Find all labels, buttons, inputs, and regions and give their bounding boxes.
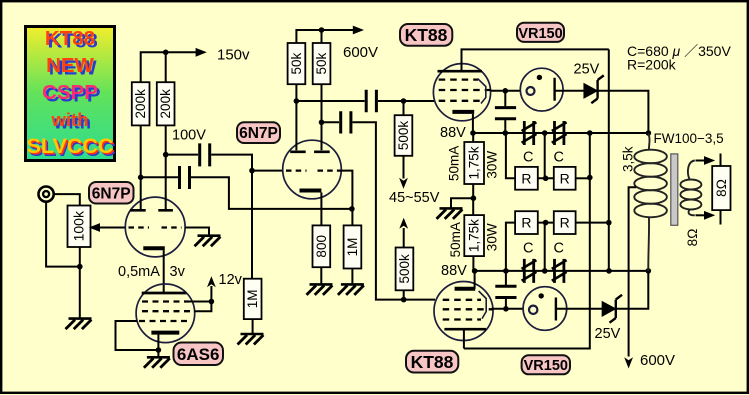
node g2/bypass junction — [503, 88, 509, 94]
wire 1,75k chain — [472, 133, 474, 215]
svg-text:R: R — [560, 215, 570, 231]
tube V2 grid rows — [443, 300, 493, 320]
node 200k R2 top junction — [163, 50, 169, 56]
resistor 500k R6 — [396, 248, 414, 291]
svg-text:C: C — [554, 150, 564, 166]
svg-text:NEW: NEW — [46, 54, 94, 77]
resistor 1M R10 — [344, 225, 362, 268]
svg-text:1,75k: 1,75k — [467, 146, 482, 179]
wire jack to 100k top — [54, 194, 80, 205]
svg-text:R: R — [521, 215, 531, 231]
svg-text:1M: 1M — [245, 290, 260, 309]
svg-text:200k: 200k — [158, 89, 173, 119]
tube 6N7P U3 envelope — [283, 140, 342, 199]
resistor R box top-right — [554, 167, 576, 190]
resistor R box top-left — [515, 167, 538, 190]
tube V3 cathode circle — [527, 87, 535, 95]
wire secondary top arrow — [696, 156, 716, 165]
ground under 1M R8 — [238, 334, 264, 345]
node U3 grid junction — [249, 168, 255, 174]
svg-text:100V: 100V — [172, 128, 206, 144]
svg-text:R: R — [560, 170, 570, 186]
label 6N7P U1 — [89, 182, 134, 204]
wire U3 cathode to 800 — [320, 193, 322, 226]
resistor 200k R1 — [132, 82, 150, 125]
text 50mA bottom — [448, 222, 463, 257]
svg-text:800: 800 — [314, 235, 329, 258]
wire U2 cathode to ground — [157, 335, 159, 358]
svg-text:KT88: KT88 — [405, 25, 448, 45]
tube V1 cathode bar — [452, 110, 474, 114]
wire 600V top rail — [296, 30, 353, 43]
wire V1 g2 to VR150 — [491, 90, 521, 92]
svg-text:with: with — [51, 109, 89, 130]
wire cross-coupling V2 plate to top node — [464, 133, 590, 349]
wire secondary bottom arrow — [696, 211, 716, 220]
wire 50k R3 bottom to U3 left plate — [295, 84, 297, 150]
svg-text:200k: 200k — [133, 89, 148, 119]
transformer core — [671, 154, 678, 225]
text 600V bottom — [640, 352, 675, 369]
label 6N7P U3 — [237, 122, 280, 143]
text 12v — [219, 272, 243, 288]
svg-text:VR150: VR150 — [518, 26, 562, 42]
tube V2 beam electrode — [479, 291, 487, 319]
wire grid junction down to 1M R8 — [251, 171, 253, 279]
text FW100-3,5 — [654, 131, 724, 146]
node 1,75k midpoint — [471, 195, 477, 201]
label VR150 V4 — [522, 355, 570, 374]
resistor 1,75k R12 — [464, 215, 484, 256]
wire V3 anode to zener D1 — [555, 90, 585, 92]
svg-text:50k: 50k — [289, 52, 304, 74]
node U2 cathode junction — [156, 347, 162, 353]
text 88V bottom — [441, 263, 467, 279]
wire to coupling cap C3 — [296, 100, 364, 102]
tube V3 gas dot — [537, 75, 542, 80]
wire 50k R4 top lead — [321, 30, 323, 43]
svg-text:12v: 12v — [219, 272, 243, 288]
node 50k R4 top junction — [319, 27, 325, 33]
svg-text:6N7P: 6N7P — [92, 185, 131, 202]
text C=680u/350V — [627, 43, 731, 59]
tube VR150 V4 envelope — [523, 287, 567, 331]
wire U2 grids to 12v node — [189, 302, 211, 312]
svg-text:R: R — [521, 170, 531, 186]
text 30W top — [485, 151, 500, 179]
node top 88V junctions — [470, 130, 651, 136]
wire 800 to ground — [320, 267, 322, 284]
resistor 100k — [68, 206, 91, 248]
text R=200k — [627, 57, 677, 73]
svg-text:6N7P: 6N7P — [239, 125, 278, 142]
wire V2 plate lead — [463, 331, 465, 349]
wire 1M R10 to ground — [351, 269, 353, 285]
tube V1 grid rows — [439, 80, 491, 101]
capacitor C2 plates — [180, 166, 190, 189]
node coupling cap C2 tap — [138, 175, 144, 181]
svg-text:1,75k: 1,75k — [467, 219, 482, 252]
wire top 88V node line — [473, 132, 648, 134]
tube KT88 V1 envelope — [433, 64, 490, 121]
capacitor C7 electrolytic bottom-left — [522, 259, 537, 283]
tube V1 beam electrode — [478, 79, 486, 104]
ground right of U1 — [195, 236, 221, 247]
svg-text:150v: 150v — [217, 47, 250, 64]
wire C2 to cathode bus — [191, 177, 352, 209]
label 6AS6 U2 — [174, 343, 224, 366]
wire zener D2 to choke bottom node — [616, 271, 649, 309]
svg-text:SLVCCC: SLVCCC — [27, 134, 114, 158]
wire V1 plate to top rail — [462, 49, 609, 70]
tube V2 plate bar — [444, 328, 486, 331]
text 3v — [170, 264, 186, 280]
capacitor bypass top plates — [495, 108, 516, 119]
ground under 100k — [66, 319, 92, 330]
svg-text:50mA: 50mA — [447, 146, 462, 181]
node R chain top junctions — [543, 175, 593, 181]
svg-text:600V: 600V — [343, 44, 378, 61]
svg-text:1M: 1M — [345, 238, 360, 257]
tube V4 gas dot — [539, 293, 544, 298]
wire 200k R2 top lead — [165, 52, 167, 82]
wire V2 cathode lead — [474, 271, 476, 289]
capacitor C6 electrolytic top-right — [552, 121, 567, 145]
wire U3 right grid to bus node — [341, 171, 352, 226]
node bottom g2 junction — [503, 306, 509, 312]
tube U2 plate bar — [142, 292, 187, 295]
node coupling cap C3 tap — [294, 98, 300, 104]
tube U1 grid dashes — [129, 226, 182, 228]
node 500k R5 tap — [401, 98, 407, 104]
svg-text:45~55V: 45~55V — [389, 190, 440, 206]
tube U2 grid rows — [139, 302, 190, 322]
tube U3 plate bars — [290, 151, 330, 154]
text 88V top — [440, 125, 466, 141]
title box KT88 NEW CSPP with SLVCCC — [26, 27, 117, 162]
text 45~55V — [389, 190, 440, 206]
wire R chain bottom — [506, 223, 609, 271]
text 50mA top — [447, 146, 462, 181]
zener D1 25V — [584, 75, 604, 103]
resistor 50k R4 — [313, 43, 331, 84]
wire to coupling cap C4 — [322, 121, 340, 123]
arrow 600V top — [353, 26, 364, 35]
text C labels bottom — [523, 241, 564, 257]
node 500k R6 tap — [401, 297, 407, 303]
svg-text:600V: 600V — [640, 352, 675, 369]
svg-text:50mA: 50mA — [448, 222, 463, 257]
svg-text:8Ω: 8Ω — [685, 229, 700, 247]
capacitor C4 plates — [341, 111, 351, 133]
ground bias midpoint — [437, 208, 463, 219]
wire 8ohm leads — [720, 154, 722, 225]
tube U2 cathode bar — [151, 331, 179, 335]
tube U1 cathode bar — [143, 246, 165, 250]
svg-text:100k: 100k — [70, 210, 86, 241]
wire R chain top — [506, 133, 590, 178]
wire 100k bottom to ground — [79, 247, 81, 318]
wire 500k R5 top lead — [403, 101, 405, 115]
text 3,5k — [620, 146, 635, 172]
wire U1 right grid to ground — [185, 228, 209, 236]
svg-text:25V: 25V — [595, 326, 621, 342]
capacitor C3 plates — [366, 90, 376, 112]
wire to coupling cap C2 — [141, 176, 178, 178]
svg-text:0,5mA: 0,5mA — [118, 264, 160, 280]
capacitor C5 electrolytic top-left — [522, 121, 537, 145]
svg-text:3,5k: 3,5k — [620, 146, 635, 172]
resistor 800 R9 — [313, 225, 331, 267]
svg-text:C: C — [523, 150, 533, 166]
tube KT88 V2 envelope — [434, 282, 493, 341]
zener D2 25V — [602, 295, 622, 323]
arrow 12v supply — [207, 276, 216, 301]
choke 3,5k primary winding — [634, 133, 667, 271]
label KT88 V1 — [400, 24, 452, 46]
tube 6N7P U1 envelope — [125, 197, 185, 257]
tube U3 grid dashes — [286, 169, 341, 171]
tube U1 plate bars — [130, 209, 173, 212]
ground under 6AS6 — [144, 357, 170, 368]
resistor R box bottom-left — [515, 211, 538, 234]
svg-text:88V: 88V — [441, 263, 467, 279]
wire 200k R2 bottom to U1 right plate — [165, 125, 167, 209]
resistor 8ohm load — [712, 166, 730, 210]
label VR150 V3 — [517, 23, 564, 42]
tube V4 anode bar — [555, 298, 557, 321]
tube 6AS6 U2 envelope — [136, 284, 195, 343]
resistor 500k R5 — [395, 115, 413, 156]
tube V3 anode bar — [553, 78, 555, 101]
node coupling cap C4 tap — [319, 120, 325, 126]
ground under 1M R10 — [338, 284, 364, 295]
svg-text:6AS6: 6AS6 — [177, 345, 220, 364]
tube V4 cathode circle — [529, 306, 537, 314]
resistor 200k R2 — [157, 82, 175, 125]
resistor 1M R8 — [244, 279, 262, 319]
tube V2 cathode bar — [455, 287, 476, 291]
text 0,5mA — [118, 264, 160, 280]
svg-text:8Ω: 8Ω — [714, 179, 729, 197]
wire V1 plate rail down to lower node — [608, 49, 610, 271]
svg-text:88V: 88V — [440, 125, 466, 141]
svg-text:VR150: VR150 — [524, 358, 568, 374]
wire midpoint to ground — [451, 198, 473, 208]
label KT88 V2 — [406, 351, 458, 373]
wire jack bottom to node — [46, 202, 80, 267]
svg-text:KT88: KT88 — [411, 352, 454, 372]
wire 200k R1 bottom to U1 left plate — [140, 125, 142, 209]
svg-text:50k: 50k — [314, 52, 329, 74]
wire bypass bottom leads — [505, 271, 507, 309]
wire C3 to KT88 V1 grid — [378, 100, 434, 102]
wire U1 cathode down to 6AS6 plate — [163, 250, 165, 292]
transformer secondary winding — [680, 161, 701, 216]
resistor R box bottom-right — [554, 211, 576, 234]
svg-text:FW100−3,5: FW100−3,5 — [654, 131, 724, 146]
svg-text:KT88: KT88 — [45, 27, 95, 50]
text 600V top — [343, 44, 378, 61]
ground under 800 — [307, 284, 333, 295]
node 6AS6/12v junction — [209, 299, 215, 305]
wire V2 g2 to VR150 V4 — [492, 308, 524, 310]
arrow 500k R5 to bias — [399, 156, 408, 189]
wire C1 to U3 grid junction — [211, 155, 283, 171]
svg-text:CSPP: CSPP — [42, 81, 98, 104]
capacitor bypass bottom plates — [495, 286, 516, 297]
text 25V bottom — [595, 326, 621, 342]
wire C4 to KT88 V2 grid — [353, 122, 436, 299]
wire 50k R4 bottom to U3 right plate — [321, 84, 323, 150]
tube V1 plate bar — [438, 70, 483, 73]
input jack J1 — [39, 187, 54, 202]
arrow grid of 6N7P U1 into 100k — [89, 223, 126, 232]
arrow 600V bottom — [624, 357, 633, 368]
wire 500k R6 bottom lead — [403, 290, 405, 299]
svg-text:30W: 30W — [485, 151, 500, 179]
text 30W bottom — [485, 223, 500, 251]
wire zener D1 to choke top node — [598, 91, 649, 133]
capacitor C8 electrolytic bottom-right — [552, 259, 567, 283]
svg-text:C: C — [523, 241, 533, 257]
resistor 50k R3 — [288, 43, 306, 84]
text C labels top — [523, 150, 564, 166]
wire V4 anode to zener D2 — [556, 308, 603, 310]
node coupling cap C1 tap — [163, 152, 169, 158]
wire U2 g1 loop to cathode — [116, 321, 159, 350]
wire 1M R8 to ground — [252, 319, 254, 334]
wire bypass top leads — [504, 91, 506, 133]
svg-text:500k: 500k — [396, 121, 411, 151]
wire 1,75k R12 bottom lead — [472, 256, 474, 271]
svg-text:30W: 30W — [485, 223, 500, 251]
node bottom 88V junctions — [472, 268, 651, 274]
wire choke tap to 600V — [629, 187, 636, 356]
text 8 ohm secondary label — [685, 229, 700, 247]
node R chain bottom junctions — [543, 220, 612, 226]
node jack/100k junction — [77, 264, 83, 270]
tube VR150 V3 envelope — [520, 68, 563, 111]
text 100V — [172, 128, 206, 144]
text 25V top — [574, 62, 600, 78]
tube U3 cathode bar — [300, 189, 322, 193]
resistor 1,75k R11 — [464, 142, 484, 184]
svg-text:25V: 25V — [574, 62, 600, 78]
wire to coupling cap C1 — [166, 154, 198, 156]
svg-text:500k: 500k — [397, 254, 412, 284]
arrow 500k R6 to bias — [399, 218, 408, 248]
wire bottom 88V node line — [475, 270, 649, 272]
capacitor C1 plates — [200, 143, 210, 166]
wire V1 cathode lead — [472, 114, 474, 133]
svg-text:3v: 3v — [170, 264, 186, 280]
svg-text:R=200k: R=200k — [627, 57, 677, 73]
text 150v — [217, 47, 250, 64]
node bus/1M junction — [349, 206, 355, 212]
svg-text:C: C — [554, 241, 564, 257]
arrow 150v — [196, 48, 207, 57]
wire 150v rail — [141, 52, 197, 82]
